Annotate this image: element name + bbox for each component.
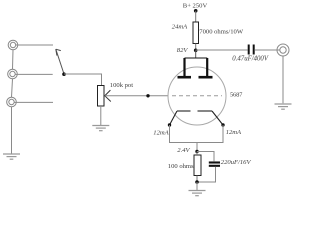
tube 5687 envelope — [168, 67, 226, 125]
wire: resistor to plate node — [195, 44, 197, 51]
pot wiper arrow — [105, 90, 111, 101]
resistor R1 7000 ohms/10W — [193, 22, 199, 44]
ground (pot) — [92, 126, 109, 131]
wire: pot wiper to grid — [105, 95, 168, 97]
wire: plate rail to coupling cap — [196, 49, 248, 51]
wire: jack ground chain — [12, 50, 14, 154]
B+ terminal dot — [194, 9, 198, 13]
wire: J3 to switch contact — [14, 101, 53, 103]
ground (output) — [275, 104, 292, 109]
wire: cap to output jack — [255, 49, 280, 51]
svg-text:B+ 250V: B+ 250V — [183, 3, 208, 10]
ground (input jacks) — [3, 154, 20, 159]
svg-text:5687: 5687 — [230, 91, 243, 98]
input jack J2 — [8, 69, 18, 79]
resistor R2 100 ohms — [194, 155, 201, 176]
svg-text:24mA: 24mA — [172, 23, 188, 30]
coupling capacitor C1 0.47uF/400V — [249, 45, 254, 55]
input jack J1 — [8, 40, 18, 50]
wire: B+ to resistor — [195, 11, 197, 22]
junction dot left cathode — [168, 123, 171, 126]
selector switch wiper — [56, 49, 64, 74]
svg-text:12mA: 12mA — [226, 129, 242, 136]
svg-text:12mA: 12mA — [153, 129, 169, 136]
wire: plate node down to plates — [195, 50, 197, 58]
junction dot ground node — [195, 180, 199, 184]
junction dot on grid wire — [146, 94, 149, 97]
junction dot right cathode — [221, 123, 224, 126]
wire: J2 to switch contact — [15, 73, 53, 75]
junction dot cathode node 2.4V — [195, 150, 198, 153]
svg-text:220uF/16V: 220uF/16V — [221, 159, 252, 166]
potentiometer 100k body — [98, 86, 105, 107]
wire: bypass cap bottom to node — [197, 167, 216, 182]
svg-text:2.4V: 2.4V — [177, 147, 190, 154]
ground (cathode) — [189, 191, 206, 196]
svg-text:0.47uF/400V: 0.47uF/400V — [232, 55, 269, 62]
tube plates (anodes) — [178, 58, 213, 77]
wire: node to resistor top — [196, 152, 198, 156]
tube cathodes — [170, 111, 224, 125]
wire: output jack to ground — [282, 56, 284, 103]
svg-text:100 ohms: 100 ohms — [168, 163, 194, 170]
svg-text:100k pot: 100k pot — [110, 82, 133, 89]
switch pivot dot — [62, 72, 66, 76]
input jack J3 — [7, 97, 17, 107]
output jack — [277, 44, 289, 56]
wire: pot to ground — [100, 106, 102, 125]
wire: switch to pot — [64, 74, 102, 86]
junction dot plate node — [194, 49, 198, 53]
wire: resistor bottom to node — [196, 176, 198, 183]
wire: cathode bus — [170, 125, 224, 152]
tube grid (dashed) — [172, 95, 222, 97]
wire: J1 to switch contact — [16, 44, 53, 46]
svg-text:82V: 82V — [177, 47, 189, 54]
svg-text:7000 ohms/10W: 7000 ohms/10W — [199, 29, 244, 36]
wire: node to ground — [196, 182, 198, 190]
wire: node to bypass cap top — [197, 152, 214, 162]
capacitor C2 220uF/16V — [209, 163, 220, 166]
